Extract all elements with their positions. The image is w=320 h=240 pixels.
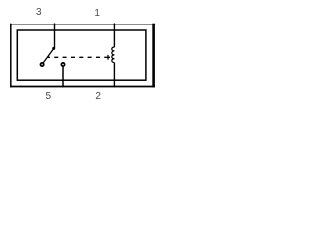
inner body rectangle <box>17 30 146 80</box>
pin 3 lead <box>54 24 56 48</box>
switch pivot junction dot <box>52 47 55 50</box>
left contact circle <box>41 63 44 66</box>
pin 2 lead <box>113 63 115 88</box>
svg-text:2: 2 <box>95 91 101 102</box>
body outline top edge (gray) <box>10 24 155 26</box>
dashed actuation link <box>47 56 102 58</box>
pin 5 lead <box>62 66 64 87</box>
pin 1 lead <box>113 24 115 48</box>
body outline right edge <box>152 24 155 88</box>
relay coil <box>112 47 115 63</box>
pin 5 contact circle <box>61 63 64 66</box>
svg-text:1: 1 <box>94 8 100 19</box>
svg-text:5: 5 <box>46 91 52 102</box>
switch blade <box>43 48 54 64</box>
actuation arrow at coil <box>104 55 110 60</box>
body outline left edge <box>10 24 12 88</box>
body outline bottom edge <box>10 86 155 88</box>
svg-text:3: 3 <box>36 7 42 18</box>
